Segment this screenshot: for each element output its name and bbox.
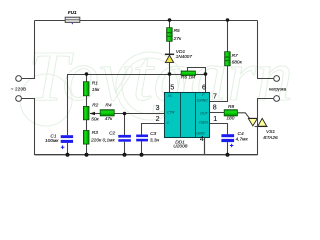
svg-text:0,1мк: 0,1мк bbox=[103, 138, 116, 144]
svg-text:C4: C4 bbox=[238, 131, 244, 137]
svg-text:VS1: VS1 bbox=[266, 129, 275, 135]
svg-text:ISEN: ISEN bbox=[199, 121, 208, 125]
svg-text:1N4007: 1N4007 bbox=[176, 54, 193, 59]
svg-text:OUT: OUT bbox=[200, 112, 209, 116]
svg-text:R8: R8 bbox=[228, 104, 234, 110]
svg-text:15к: 15к bbox=[92, 87, 100, 93]
svg-text:1: 1 bbox=[213, 116, 217, 123]
svg-text:27к: 27к bbox=[173, 36, 182, 42]
svg-text:2: 2 bbox=[156, 116, 160, 123]
svg-text:220к: 220к bbox=[90, 138, 102, 144]
svg-text:R4: R4 bbox=[105, 103, 111, 109]
svg-text:R2: R2 bbox=[92, 103, 98, 109]
svg-text:R7: R7 bbox=[232, 53, 238, 59]
svg-text:~ 220В: ~ 220В bbox=[11, 87, 27, 92]
svg-text:R5: R5 bbox=[174, 28, 180, 34]
svg-text:U2008: U2008 bbox=[173, 144, 187, 150]
svg-text:C2: C2 bbox=[109, 131, 115, 137]
svg-text:CTR: CTR bbox=[167, 110, 175, 114]
svg-text:4,7мк: 4,7мк bbox=[236, 136, 249, 142]
svg-text:C: C bbox=[167, 121, 170, 125]
svg-text:50к: 50к bbox=[91, 116, 99, 122]
svg-text:180: 180 bbox=[226, 116, 234, 122]
svg-text:R3: R3 bbox=[92, 130, 98, 136]
svg-text:IO/INC: IO/INC bbox=[197, 99, 209, 103]
svg-text:C3: C3 bbox=[150, 131, 156, 137]
svg-text:100мк: 100мк bbox=[45, 138, 59, 144]
svg-text:-IS: -IS bbox=[167, 94, 172, 98]
svg-text:GND: GND bbox=[196, 132, 205, 136]
svg-text:5: 5 bbox=[170, 85, 174, 92]
svg-text:нагрузка: нагрузка bbox=[269, 86, 287, 91]
svg-text:6: 6 bbox=[202, 84, 206, 91]
svg-text:680к: 680к bbox=[232, 60, 243, 66]
svg-text:3: 3 bbox=[156, 105, 160, 112]
svg-text:3,3н: 3,3н bbox=[150, 137, 160, 143]
svg-text:8: 8 bbox=[213, 105, 217, 112]
svg-text:FU1: FU1 bbox=[68, 10, 77, 15]
svg-text:7: 7 bbox=[213, 94, 217, 101]
svg-text:4: 4 bbox=[200, 136, 204, 143]
svg-text:R1: R1 bbox=[92, 80, 98, 86]
svg-text:R6 1М: R6 1М bbox=[181, 75, 195, 81]
svg-text:BTA26: BTA26 bbox=[263, 135, 278, 141]
svg-text:47к: 47к bbox=[105, 116, 113, 122]
